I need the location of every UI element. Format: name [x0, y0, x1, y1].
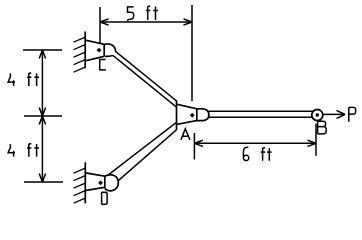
node arrow down upper-4ft middle [39, 108, 45, 117]
label 6 ft [243, 147, 248, 160]
member DA upper edge [109, 122, 177, 174]
member AB bottom edge [209, 116, 313, 118]
support bracket at D [86, 173, 105, 191]
joint A gusset left edge [176, 100, 178, 130]
member CA lower edge [113, 55, 177, 107]
member CA upper edge [115, 51, 176, 101]
node arrow right end of 6ft [308, 140, 317, 146]
node arrow left end of 6ft [194, 140, 203, 146]
pin at A [190, 113, 195, 118]
wire dimension 6ft left tick [193, 133, 195, 160]
member AB top edge [209, 110, 313, 112]
label P [349, 107, 356, 121]
label 4 ft upper [8, 73, 15, 86]
pin dot at B [316, 113, 319, 116]
node arrow right end of 5ft [184, 19, 193, 25]
node arrow left end of 5ft [100, 19, 109, 25]
label 4 ft lower [8, 144, 15, 157]
link CA eye knuckle at C [104, 44, 115, 56]
label B [318, 121, 327, 134]
wire dimension 4ft vertical line [41, 50, 43, 182]
wire dimension 6ft right tick [315, 124, 317, 156]
label C [100, 60, 106, 70]
node arrow up top 4ft [39, 50, 45, 59]
link DA eye knuckle at D [105, 175, 119, 191]
wall hatching at C [74, 37, 86, 72]
wall hatching at D [74, 168, 86, 203]
wire dimension 5ft right extension line [191, 5, 193, 101]
joint A gusset bottom edge [177, 121, 197, 125]
node arrow up lower-4ft middle [39, 116, 45, 125]
wall at D [84, 162, 86, 203]
pin at D [98, 180, 103, 185]
wire dimension 5ft left extension line [99, 7, 101, 43]
joint A gusset top edge [177, 104, 197, 109]
support bracket at C [86, 40, 105, 61]
pin circle at B [312, 110, 323, 121]
label D [102, 192, 108, 204]
wire dimension 5ft line [100, 21, 192, 23]
force P arrow line [323, 113, 345, 115]
member AB eye knuckle at A [197, 109, 209, 121]
label A [181, 129, 190, 140]
force P arrowhead [337, 110, 346, 118]
label 5 ft [127, 7, 134, 21]
wire tick at D level [24, 181, 63, 183]
pin at C [97, 48, 102, 53]
wire tick at C level [23, 49, 62, 51]
node arrow down bottom 4ft [39, 174, 45, 183]
wall at C [84, 32, 86, 69]
wire tick at A level [24, 115, 62, 117]
member DA lower edge [118, 130, 177, 181]
wire dimension 6ft line [194, 142, 316, 144]
